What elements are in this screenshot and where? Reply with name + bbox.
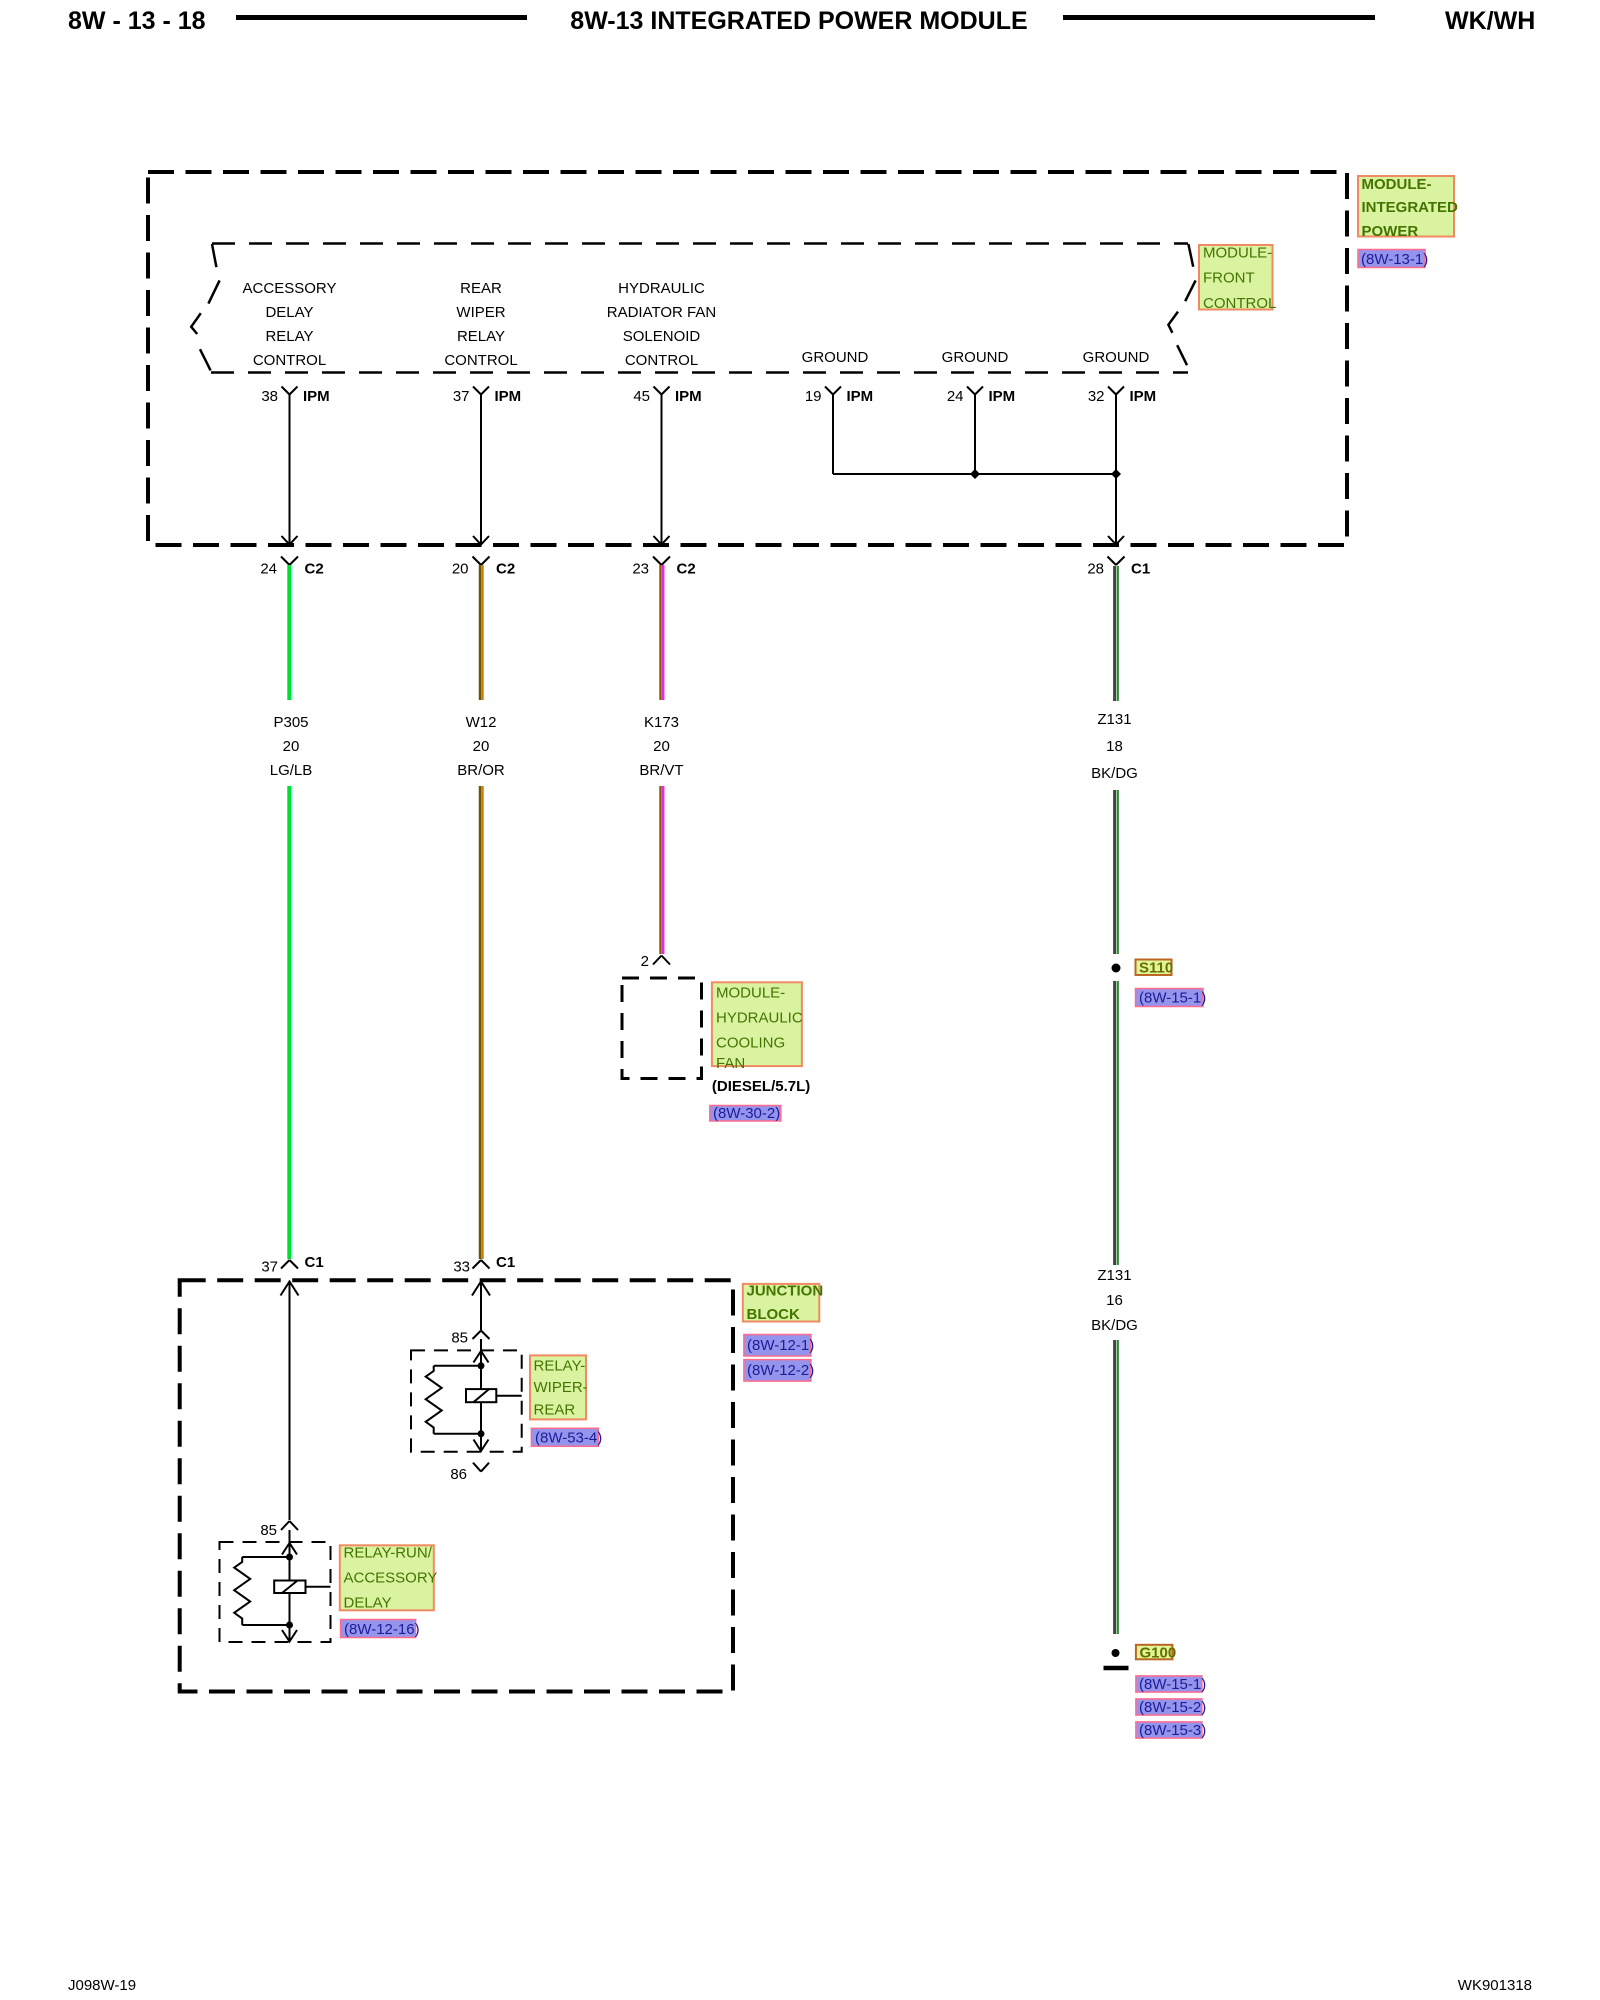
connector pin 2 (hydraulic cooling fan) [653,956,670,965]
wire Z131 16 BK/DG (label gap down to G100) [1115,1340,1118,1634]
connector 24 C2 [281,557,298,566]
svg-text:C1: C1 [305,1254,324,1271]
label box: relay-run/accessory delay [340,1545,438,1612]
connector pin 32 IPM [1108,387,1124,395]
page header title: 8W-13 INTEGRATED POWER MODULE [570,7,1027,35]
wire P305 20 LG/LB (upper segment) [289,565,292,700]
connector pin 85 (run/accessory delay relay) [281,1521,298,1530]
arrow up at relay top [474,1351,489,1363]
top junction dot [286,1554,293,1561]
module-front control box: top dashed edge [212,242,1188,245]
wire: pin 85 into wiper relay [480,1339,482,1351]
wire Z131 BK/DG (S110 down to label gap) [1115,981,1118,1265]
svg-text:20: 20 [452,561,469,578]
module-integrated power box (outer dashed box) [148,172,1347,545]
relay-run/accessory delay dashed box [220,1542,331,1642]
svg-text:(8W-53-4): (8W-53-4) [535,1430,602,1447]
svg-text:IPM: IPM [675,388,702,405]
svg-text:(8W-12-16): (8W-12-16) [344,1621,420,1638]
svg-text:REAR: REAR [460,280,502,297]
svg-text:P305: P305 [273,714,308,731]
page header left: 8W - 13 - 18 [68,7,206,35]
svg-text:INTEGRATED: INTEGRATED [1362,199,1459,216]
wire: pin 32 down to C1 exit (with arrowhead) [1108,395,1124,545]
connector 33 C1 [473,1260,490,1269]
svg-text:WK901318: WK901318 [1458,1977,1532,1994]
label: hydraulic radiator fan solenoid control [607,280,716,369]
connector 20 C2 [473,557,490,566]
svg-text:CONTROL: CONTROL [625,352,698,369]
wire K173 20 BR/VT (lower segment) [661,786,664,954]
svg-text:MODULE-: MODULE- [1203,245,1272,262]
label box: module-integrated power [1358,176,1458,240]
wire: pin 38 down to C2 exit (with arrowhead) [282,395,298,545]
svg-text:23: 23 [632,561,649,578]
top branch wire to resistor [434,1365,481,1367]
svg-text:G100: G100 [1140,1645,1177,1662]
svg-text:ACCESSORY: ACCESSORY [344,1570,438,1587]
svg-text:J098W-19: J098W-19 [68,1977,136,1994]
svg-text:37: 37 [261,1259,278,1276]
header rule left [236,15,527,20]
label wire K173 20 BR/VT [639,714,683,779]
relay coil symbol [274,1581,305,1594]
svg-text:IPM: IPM [989,388,1016,405]
resistor R (suppression) [426,1366,442,1434]
wire: pin 85 into relay [289,1530,291,1543]
svg-text:C2: C2 [496,561,515,578]
reference (8W-12-16) [341,1620,420,1639]
svg-text:DELAY: DELAY [344,1595,392,1612]
label: rear wiper relay control [444,280,517,369]
svg-text:HYDRAULIC: HYDRAULIC [618,280,705,297]
wire Z131 18 BK/DG (upper segment) [1115,566,1118,701]
svg-text:BR/OR: BR/OR [457,762,505,779]
svg-text:(8W-13-1): (8W-13-1) [1361,251,1428,268]
svg-text:C2: C2 [677,561,696,578]
svg-text:GROUND: GROUND [1083,349,1150,366]
svg-text:ACCESSORY: ACCESSORY [243,280,337,297]
relay coil symbol [466,1389,496,1402]
label wire W12 20 BR/OR [457,714,505,779]
arrow down at relay bottom [282,1630,297,1642]
footer right: WK901318 [1458,1977,1532,1994]
resistor R (suppression) [234,1557,250,1625]
connector pin 37 IPM [473,387,489,395]
svg-text:MODULE-: MODULE- [716,985,785,1002]
svg-text:GROUND: GROUND [942,349,1009,366]
wire: pin 24 down to ground bus [974,395,976,475]
reference (8W-30-2) [710,1105,781,1122]
svg-text:38: 38 [261,388,278,405]
label: accessory delay relay control [243,280,337,369]
bottom junction dot [286,1622,293,1629]
svg-text:IPM: IPM [847,388,874,405]
svg-text:IPM: IPM [495,388,522,405]
svg-text:LG/LB: LG/LB [270,762,313,779]
page header right: WK/WH [1445,7,1535,35]
svg-text:(8W-30-2): (8W-30-2) [713,1105,780,1122]
svg-text:8W-13 INTEGRATED POWER MODULE: 8W-13 INTEGRATED POWER MODULE [570,7,1027,35]
svg-text:IPM: IPM [303,388,330,405]
svg-text:HYDRAULIC: HYDRAULIC [716,1010,803,1027]
svg-text:DELAY: DELAY [265,304,313,321]
arrow down at relay bottom [474,1440,489,1452]
junction dot at pin 24 bus [970,469,980,479]
connector 37 C1 [281,1260,298,1269]
label wire P305 20 LG/LB [270,714,313,779]
wire: pin 37 down to C2 exit (with arrowhead) [473,395,489,545]
svg-text:BR/VT: BR/VT [639,762,683,779]
svg-text:C1: C1 [1131,561,1150,578]
wire P305 20 LG/LB (lower segment) [289,786,292,1259]
connector pin 38 IPM [282,387,298,395]
svg-text:(8W-15-3): (8W-15-3) [1139,1722,1206,1739]
svg-text:(8W-12-1): (8W-12-1) [747,1337,814,1354]
reference (8W-53-4) [531,1428,602,1446]
splice S110 junction dot [1112,964,1121,973]
svg-text:(8W-15-1): (8W-15-1) [1139,1676,1206,1693]
top branch wire to resistor [242,1556,289,1558]
svg-text:BK/DG: BK/DG [1091,1317,1138,1334]
svg-text:(8W-15-2): (8W-15-2) [1139,1699,1206,1716]
svg-text:K173: K173 [644,714,679,731]
top junction dot [478,1362,485,1369]
junction block dashed box [180,1280,733,1691]
label: ground (pin 24) [942,349,1009,366]
svg-text:Z131: Z131 [1097,1267,1131,1284]
svg-text:8W - 13 - 18: 8W - 13 - 18 [68,7,206,35]
svg-text:COOLING: COOLING [716,1035,785,1052]
svg-text:(8W-12-2): (8W-12-2) [747,1362,814,1379]
connector pin 24 IPM [967,387,983,395]
module-hydraulic cooling fan dashed box [622,978,702,1079]
svg-text:C1: C1 [496,1254,515,1271]
wire: junction block entry arrow (col 33) [472,1282,490,1331]
svg-text:(8W-15-1): (8W-15-1) [1139,990,1206,1007]
svg-text:32: 32 [1088,388,1105,405]
svg-text:37: 37 [453,388,470,405]
reference (8W-15-2) at G100 [1136,1699,1206,1716]
svg-text:16: 16 [1106,1292,1123,1309]
label box: G100 [1136,1645,1176,1662]
label wire Z131 18 BK/DG [1091,711,1138,782]
svg-text:JUNCTION: JUNCTION [747,1283,824,1300]
svg-text:85: 85 [260,1522,277,1539]
bottom branch wire from resistor [242,1624,289,1626]
ground bus wire [833,473,1116,475]
module-front control box: left torn zigzag edge [191,244,219,371]
label box: module-front control [1199,245,1276,313]
svg-text:20: 20 [653,738,670,755]
svg-text:BK/DG: BK/DG [1091,765,1138,782]
svg-text:85: 85 [451,1330,468,1347]
svg-text:CONTROL: CONTROL [444,352,517,369]
svg-text:24: 24 [947,388,964,405]
svg-text:2: 2 [641,953,649,970]
svg-text:REAR: REAR [534,1402,576,1419]
module-front control box: right torn zigzag edge [1168,244,1195,365]
reference (8W-13-1) [1358,250,1428,269]
label box: relay-wiper-rear [530,1355,588,1419]
svg-text:Z131: Z131 [1097,711,1131,728]
reference (8W-12-2) [744,1360,814,1382]
arrow up at relay top [282,1543,297,1555]
svg-text:CONTROL: CONTROL [1203,295,1276,312]
ground symbol G100 [1104,1649,1129,1668]
connector pin 19 IPM [825,387,841,395]
svg-text:C2: C2 [305,561,324,578]
svg-text:WK/WH: WK/WH [1445,7,1535,35]
svg-text:W12: W12 [466,714,497,731]
svg-text:33: 33 [453,1259,470,1276]
svg-text:S110: S110 [1139,960,1173,977]
wire: pin 19 down to ground bus [832,395,834,475]
svg-text:MODULE-: MODULE- [1362,176,1432,193]
wire W12 20 BR/OR (upper segment) [480,565,483,700]
connector pin 86 (wiper relay) [473,1463,489,1472]
bottom junction dot [478,1430,485,1437]
connector pin 85 (wiper relay) [473,1331,490,1340]
connector 28 C1 [1108,557,1125,566]
label wire Z131 16 BK/DG [1091,1267,1138,1334]
reference (8W-15-1) at S110 [1136,989,1207,1007]
module-front control box: bottom dashed edge [211,371,1188,374]
label box: junction block [743,1283,823,1323]
svg-text:24: 24 [260,561,277,578]
svg-text:RELAY: RELAY [265,328,313,345]
header rule right [1063,15,1375,20]
svg-text:RADIATOR FAN: RADIATOR FAN [607,304,716,321]
wire Z131 18 BK/DG (lower segment to S110) [1115,790,1118,954]
svg-text:18: 18 [1106,738,1123,755]
coil feed wire [480,1351,482,1451]
bottom branch wire from resistor [434,1433,481,1435]
svg-text:RELAY-: RELAY- [534,1358,586,1375]
coil output stub [496,1395,521,1397]
svg-text:CONTROL: CONTROL [253,352,326,369]
svg-text:RELAY: RELAY [457,328,505,345]
svg-text:28: 28 [1087,561,1104,578]
svg-text:WIPER-: WIPER- [534,1379,588,1396]
wire K173 20 BR/VT (upper segment) [661,565,664,700]
connector pin 45 IPM [654,387,670,395]
svg-text:SOLENOID: SOLENOID [623,328,701,345]
svg-text:20: 20 [473,738,490,755]
wire: junction block entry arrow (col 37) [281,1282,299,1521]
label box: module-hydraulic cooling fan [712,982,803,1072]
svg-text:WIPER: WIPER [456,304,505,321]
coil output stub [306,1586,331,1588]
svg-text:86: 86 [450,1466,467,1483]
junction dot at pin 32 bus [1111,469,1121,479]
label: (DIESEL/5.7L) [712,1078,810,1095]
svg-text:FAN: FAN [716,1055,745,1072]
reference (8W-15-3) at G100 [1136,1722,1206,1739]
svg-text:POWER: POWER [1362,223,1419,240]
svg-text:BLOCK: BLOCK [747,1306,800,1323]
reference (8W-12-1) [744,1335,814,1357]
relay-wiper-rear dashed box [411,1350,522,1451]
svg-text:IPM: IPM [1130,388,1157,405]
wire W12 20 BR/OR (lower segment) [480,786,483,1259]
label: ground (pin 19) [802,349,869,366]
footer left: J098W-19 [68,1977,136,1994]
coil feed wire [289,1543,291,1641]
label: ground (pin 32) [1083,349,1150,366]
svg-text:FRONT: FRONT [1203,270,1255,287]
connector 23 C2 [653,557,670,566]
label box: S110 [1136,960,1174,977]
relay-wiper-rear internals [426,1351,522,1451]
svg-text:GROUND: GROUND [802,349,869,366]
wire: pin 45 down to C2 exit (with arrowhead) [654,395,670,545]
svg-text:19: 19 [805,388,822,405]
svg-text:RELAY-RUN/: RELAY-RUN/ [344,1545,433,1562]
reference (8W-15-1) at G100 [1136,1676,1206,1693]
svg-text:20: 20 [283,738,300,755]
relay-run/accessory delay internals [234,1543,330,1642]
svg-text:45: 45 [633,388,650,405]
svg-text:(DIESEL/5.7L): (DIESEL/5.7L) [712,1078,810,1095]
